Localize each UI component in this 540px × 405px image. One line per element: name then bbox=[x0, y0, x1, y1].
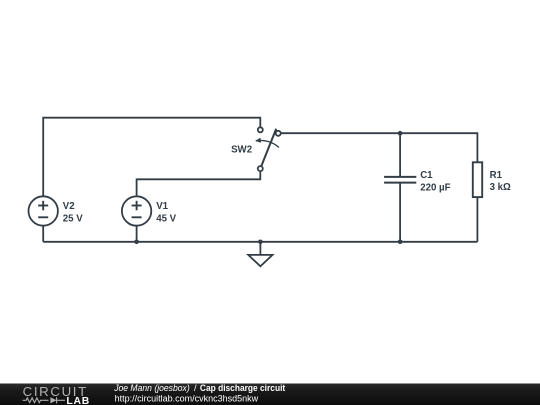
svg-text:SW2: SW2 bbox=[231, 144, 252, 155]
label V2 25 V bbox=[63, 201, 83, 224]
svg-text:R1: R1 bbox=[490, 170, 503, 181]
voltage source V2 bbox=[29, 196, 58, 225]
wire R1 bottom stub bbox=[476, 198, 478, 242]
CircuitLab logo diode bbox=[56, 397, 58, 403]
node junction C1/bottom rail bbox=[398, 240, 403, 245]
SW2 top terminal bbox=[258, 127, 263, 132]
svg-text:25 V: 25 V bbox=[63, 213, 83, 224]
capacitor C1 bbox=[384, 177, 416, 183]
SW2 bottom terminal bbox=[258, 166, 263, 171]
svg-text:220 µF: 220 µF bbox=[420, 182, 450, 193]
svg-text:3 kΩ: 3 kΩ bbox=[490, 182, 511, 193]
ground bbox=[248, 242, 272, 266]
wire V2 bottom stub bbox=[42, 226, 44, 242]
label V1 45 V bbox=[156, 201, 176, 224]
SW2 common terminal bbox=[276, 131, 281, 136]
switch SW2 bbox=[255, 127, 280, 171]
wire top rail from V2 to SW2 top terminal bbox=[43, 118, 260, 197]
wire C1 bottom stub bbox=[399, 184, 401, 242]
node junction C1/top rail bbox=[398, 131, 403, 136]
svg-text:Joe Mann (joesbox): Joe Mann (joesbox) bbox=[113, 383, 189, 393]
wire V1 bottom stub bbox=[136, 226, 138, 242]
node junction ground/bottom rail bbox=[258, 240, 263, 245]
svg-text:V2: V2 bbox=[63, 201, 75, 212]
wire bottom rail bbox=[43, 241, 477, 243]
voltage source V1 bbox=[122, 196, 151, 225]
svg-text:45 V: 45 V bbox=[156, 213, 176, 224]
wire C1 top stub bbox=[399, 133, 401, 176]
resistor R1 bbox=[473, 162, 482, 197]
SW2 lever bbox=[261, 129, 276, 167]
label C1 220 uF bbox=[420, 170, 450, 193]
label R1 3 kOhm bbox=[490, 170, 511, 193]
wire SW2 bottom terminal to V1 top bbox=[137, 172, 261, 196]
svg-text:V1: V1 bbox=[156, 201, 168, 212]
node junction V1/bottom rail bbox=[134, 240, 139, 245]
svg-text:LAB: LAB bbox=[66, 395, 90, 405]
wire from SW2 common terminal to R1 top bbox=[281, 133, 477, 161]
svg-text:C1: C1 bbox=[420, 170, 433, 181]
SW2 actuation arrow bbox=[256, 140, 279, 147]
CircuitLab logo resistor zigzag bbox=[23, 397, 65, 403]
svg-text:http://circuitlab.com/cvknc3hs: http://circuitlab.com/cvknc3hsd5nkw bbox=[115, 393, 259, 403]
svg-text:Cap discharge circuit: Cap discharge circuit bbox=[200, 383, 285, 393]
